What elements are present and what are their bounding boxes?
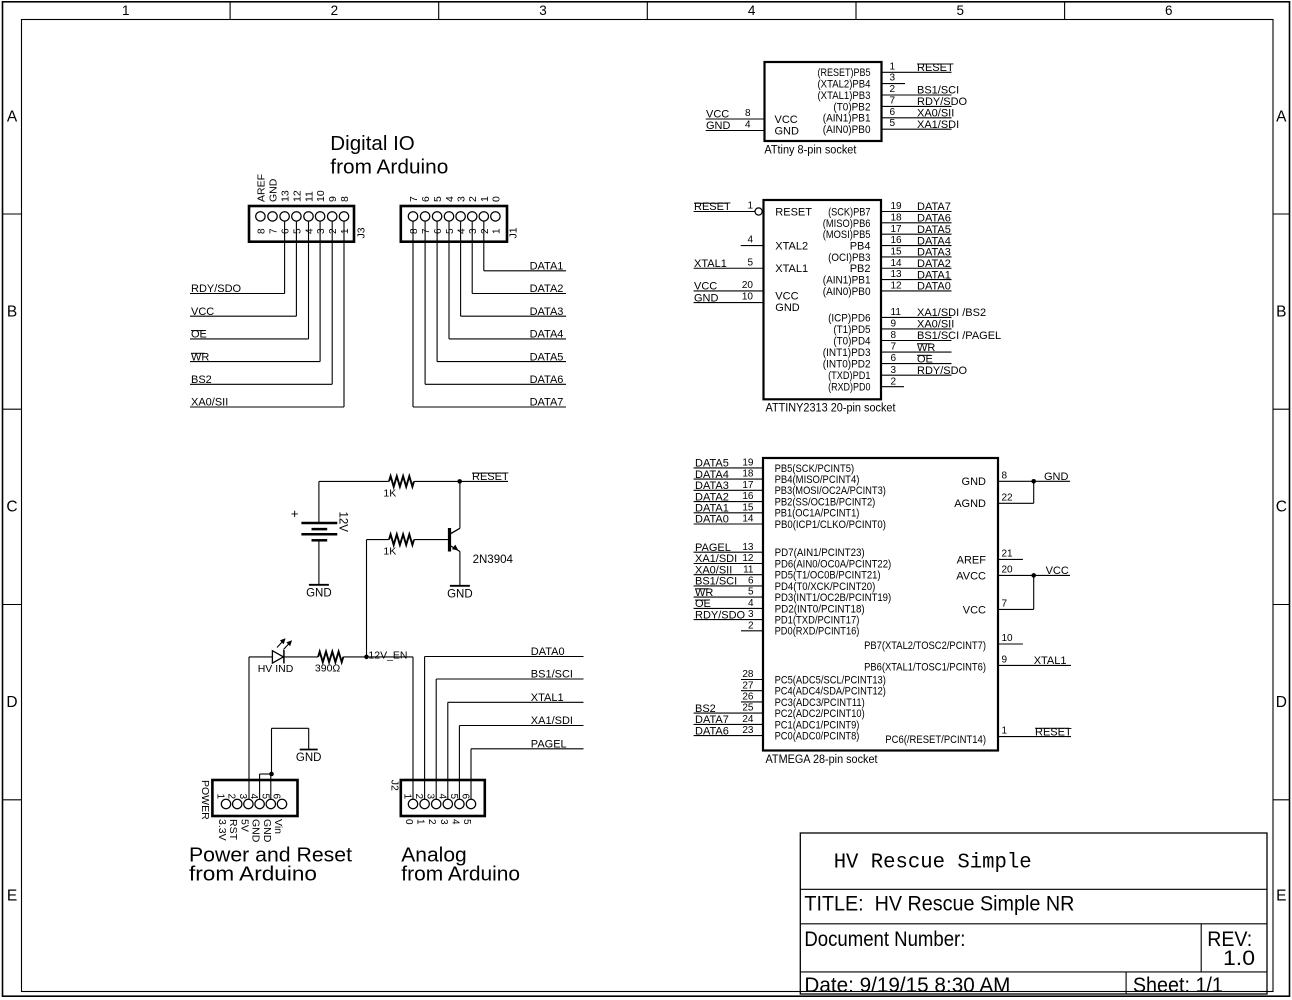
svg-text:VCC: VCC: [775, 290, 798, 302]
svg-text:25: 25: [742, 703, 754, 714]
ATTINY2313 pin 9 wire to XA0/SII net: [881, 328, 952, 330]
svg-text:10: 10: [315, 190, 327, 202]
wire RESET net label stub: [460, 480, 508, 482]
svg-text:11: 11: [891, 307, 902, 318]
svg-text:VCC: VCC: [706, 109, 729, 121]
svg-text:12: 12: [291, 190, 303, 202]
wire J2 to DATA0 net: [424, 657, 426, 800]
svg-text:PD2(INT0/PCINT18): PD2(INT0/PCINT18): [775, 603, 865, 615]
wire AVCC to VCC vertical: [1033, 575, 1035, 609]
transistor Q1 collector: [451, 528, 460, 533]
ATMEGA pin 16 wire to DATA2 net: [694, 501, 763, 503]
svg-text:9: 9: [327, 196, 339, 202]
wire 12V_EN vertical to base resistor: [366, 540, 368, 657]
wire POWER pin 5 GND up: [270, 774, 272, 799]
ATMEGA pin 12 wire to XA1/SDI net: [694, 563, 763, 565]
svg-text:1K: 1K: [383, 488, 396, 500]
svg-text:XA0/SII: XA0/SII: [917, 319, 954, 331]
svg-text:PB6(XTAL1/TOSC1/PCINT6): PB6(XTAL1/TOSC1/PCINT6): [864, 661, 986, 673]
svg-text:PB5(SCK/PCINT5): PB5(SCK/PCINT5): [775, 463, 855, 475]
svg-text:from Arduino: from Arduino: [401, 862, 520, 885]
svg-text:(XTAL1)PB3: (XTAL1)PB3: [818, 90, 871, 102]
svg-text:ATMEGA 28-pin socket: ATMEGA 28-pin socket: [766, 754, 879, 766]
svg-text:20: 20: [742, 280, 754, 291]
ATTINY2313 pin 2 stub wire: [881, 386, 904, 388]
svg-text:DATA3: DATA3: [917, 247, 951, 259]
ATMEGA pin 21 AREF stub wire: [998, 558, 1023, 560]
svg-text:PD4(T0/XCK/PCINT20): PD4(T0/XCK/PCINT20): [775, 581, 876, 593]
svg-text:Document Number:: Document Number:: [804, 928, 965, 951]
ATtiny pin 4 GND wire: [706, 130, 765, 132]
svg-text:5: 5: [259, 794, 270, 800]
svg-text:4: 4: [449, 819, 460, 825]
ATTINY2313 pin 15 wire to DATA3 net: [881, 256, 952, 258]
svg-text:DATA3: DATA3: [530, 306, 564, 318]
svg-text:RST: RST: [227, 819, 239, 841]
svg-text:7: 7: [1002, 598, 1008, 609]
svg-text:PB1(OC1A/PCINT1): PB1(OC1A/PCINT1): [775, 508, 860, 520]
svg-text:7: 7: [421, 228, 432, 234]
svg-text:7: 7: [891, 342, 897, 353]
svg-text:C: C: [6, 499, 17, 516]
wire J1 to DATA6 net: [424, 222, 426, 385]
svg-text:390Ω: 390Ω: [315, 663, 341, 675]
wire J3 to RDY/SDO net: [284, 222, 286, 294]
svg-text:XA1/SDI: XA1/SDI: [917, 119, 959, 131]
svg-text:1: 1: [1002, 726, 1008, 737]
svg-text:XA1/SDI: XA1/SDI: [695, 553, 737, 565]
svg-text:XA1/SDI: XA1/SDI: [531, 715, 573, 727]
svg-text:14: 14: [742, 514, 754, 525]
svg-text:PD6(AIN0/OC0A/PCINT22): PD6(AIN0/OC0A/PCINT22): [775, 558, 892, 570]
wire GND elbow to ground symbol: [272, 727, 309, 729]
svg-text:GND: GND: [296, 752, 322, 764]
svg-text:6: 6: [433, 228, 444, 234]
node GND junction at ATMEGA: [1031, 479, 1036, 484]
svg-text:DATA1: DATA1: [695, 503, 729, 515]
ATtiny pin 3 stub wire: [882, 83, 906, 85]
svg-text:RDY/SDO: RDY/SDO: [695, 609, 746, 621]
svg-text:13: 13: [891, 269, 903, 280]
svg-text:1: 1: [415, 819, 426, 825]
svg-text:18: 18: [891, 212, 903, 223]
svg-text:(INT0)PD2: (INT0)PD2: [823, 359, 871, 371]
svg-text:DATA4: DATA4: [695, 469, 729, 481]
ATTINY2313 pin 5 XTAL1 wire: [694, 267, 764, 269]
svg-text:VCC: VCC: [963, 604, 986, 616]
wire LED cathode to R3: [284, 656, 318, 658]
svg-text:RDY/SDO: RDY/SDO: [917, 96, 968, 108]
svg-text:8: 8: [256, 228, 267, 234]
svg-text:PAGEL: PAGEL: [695, 542, 731, 554]
svg-text:8: 8: [891, 330, 897, 341]
svg-text:DATA4: DATA4: [917, 235, 951, 247]
wire 12V supply top: [319, 480, 389, 482]
svg-text:B: B: [7, 304, 17, 321]
svg-text:XTAL1: XTAL1: [694, 258, 727, 270]
svg-text:AGND: AGND: [954, 498, 986, 510]
svg-text:RDY/SDO: RDY/SDO: [917, 365, 968, 377]
wire J3 to VCC net: [295, 222, 297, 317]
frame row tick marks right: [1273, 213, 1290, 215]
ATMEGA pin 9 wire to XTAL1 net: [998, 664, 1071, 666]
ATMEGA pin 1 wire to RESET net: [998, 736, 1071, 738]
ATTINY2313 pin 16 wire to DATA4 net: [881, 245, 952, 247]
ATMEGA pin 5 wire to WR net: [694, 596, 763, 598]
svg-text:2: 2: [467, 196, 479, 202]
frame row tick marks left: [3, 213, 22, 215]
title block outline: [800, 833, 1267, 994]
svg-text:26: 26: [742, 692, 754, 703]
svg-text:9: 9: [891, 319, 897, 330]
svg-text:PB2: PB2: [850, 263, 871, 275]
svg-text:(T1)PD5: (T1)PD5: [833, 324, 870, 336]
svg-text:TITLE: HV Rescue Simple NR: TITLE: HV Rescue Simple NR: [804, 893, 1074, 916]
svg-text:DATA7: DATA7: [695, 714, 729, 726]
svg-text:GND: GND: [694, 292, 719, 304]
wire J1 to DATA7 net: [412, 222, 414, 407]
svg-text:DATA4: DATA4: [530, 329, 564, 341]
svg-text:DATA0: DATA0: [695, 514, 729, 526]
svg-text:(AIN1)PB1: (AIN1)PB1: [823, 275, 871, 287]
wire J1 to DATA4 net: [448, 222, 450, 339]
ATMEGA pin 18 wire to DATA4 net: [694, 478, 763, 480]
svg-text:BS1/SCI: BS1/SCI: [531, 669, 573, 681]
svg-text:10: 10: [742, 292, 754, 303]
wire LED anode to POWER pin 3: [249, 656, 272, 658]
ATTINY2313 pin 17 wire to DATA5 net: [881, 233, 952, 235]
svg-text:DATA7: DATA7: [530, 397, 564, 409]
svg-text:BS1/SCI: BS1/SCI: [695, 576, 737, 588]
svg-text:1: 1: [215, 794, 226, 800]
svg-text:PD7(AIN1/PCINT23): PD7(AIN1/PCINT23): [775, 547, 865, 559]
resistor R1 1K: [389, 476, 414, 487]
svg-text:PB2(SS/OC1B/PCINT2): PB2(SS/OC1B/PCINT2): [775, 497, 876, 509]
svg-text:DATA2: DATA2: [917, 258, 951, 270]
svg-text:4: 4: [748, 3, 756, 18]
svg-text:18: 18: [742, 469, 754, 480]
svg-text:6: 6: [1165, 3, 1173, 18]
ATtiny pin 6 wire to XA0/SII net: [882, 117, 952, 119]
ATTINY2313 pin 18 wire to DATA6 net: [881, 222, 952, 224]
svg-text:1: 1: [122, 3, 130, 18]
svg-text:(RESET)PB5: (RESET)PB5: [818, 67, 871, 79]
svg-text:J1: J1: [508, 227, 520, 238]
wire R3 to 12V_EN node: [343, 656, 366, 658]
svg-text:E: E: [1276, 888, 1286, 905]
ATMEGA pin 4 wire to OE net: [694, 607, 763, 609]
svg-text:3: 3: [891, 365, 897, 376]
svg-text:XA0/SII: XA0/SII: [917, 108, 954, 120]
ATMEGA pin 17 wire to DATA3 net: [694, 489, 763, 491]
wire R2 to Q1 base: [414, 539, 448, 541]
svg-text:6: 6: [271, 794, 282, 800]
svg-text:15: 15: [891, 247, 903, 258]
svg-text:3: 3: [425, 794, 436, 800]
svg-text:(MISO)PB6: (MISO)PB6: [823, 218, 871, 230]
ATtiny pin 8 VCC wire: [706, 118, 765, 120]
svg-text:J3: J3: [356, 227, 368, 238]
svg-text:J2: J2: [389, 780, 401, 791]
svg-text:XA1/SDI /BS2: XA1/SDI /BS2: [917, 307, 986, 319]
svg-text:RDY/SDO: RDY/SDO: [191, 283, 242, 295]
svg-text:8: 8: [339, 196, 351, 202]
svg-text:Vin: Vin: [272, 819, 284, 834]
svg-text:4: 4: [436, 794, 447, 800]
svg-text:2: 2: [891, 376, 897, 387]
svg-text:5: 5: [461, 819, 472, 825]
wire J1 to DATA3 net: [460, 222, 462, 317]
svg-text:6: 6: [281, 228, 292, 234]
svg-text:DATA6: DATA6: [917, 213, 951, 225]
connector J1 pin circles: [408, 212, 417, 221]
svg-text:16: 16: [891, 235, 903, 246]
svg-text:DATA6: DATA6: [530, 374, 564, 386]
IC ATtiny 8-pin socket body: [765, 62, 882, 141]
svg-text:1: 1: [747, 201, 753, 212]
ATtiny pin 5 wire to XA1/SDI net: [882, 128, 952, 130]
connector J2 pin circles: [408, 799, 417, 808]
svg-text:4: 4: [248, 794, 259, 800]
ATTINY2313 pin 6 wire to OE net: [881, 363, 952, 365]
svg-text:2: 2: [413, 794, 424, 800]
svg-text:6: 6: [420, 196, 432, 202]
svg-text:from Arduino: from Arduino: [330, 156, 448, 179]
svg-text:D: D: [6, 694, 17, 711]
svg-text:2: 2: [328, 228, 339, 234]
svg-text:PB7(XTAL2/TOSC2/PCINT7): PB7(XTAL2/TOSC2/PCINT7): [864, 640, 986, 652]
svg-text:BS1/SCI: BS1/SCI: [917, 85, 959, 97]
svg-text:1K: 1K: [383, 546, 396, 558]
ATMEGA pin 15 wire to DATA1 net: [694, 512, 763, 514]
resistor R2 1K: [389, 534, 414, 545]
ATMEGA pin 7 VCC wire: [998, 608, 1034, 610]
battery B1 plates: [301, 522, 337, 525]
svg-text:GND: GND: [962, 476, 987, 488]
svg-text:PC1(ADC1/PCINT9): PC1(ADC1/PCINT9): [775, 719, 860, 731]
svg-text:22: 22: [1002, 492, 1014, 503]
svg-text:3: 3: [438, 819, 449, 825]
svg-text:(SCK)PB7: (SCK)PB7: [828, 206, 870, 218]
svg-text:10: 10: [1002, 633, 1014, 644]
svg-text:3: 3: [316, 228, 327, 234]
svg-text:(AIN0)PB0: (AIN0)PB0: [823, 124, 871, 136]
svg-text:Digital IO: Digital IO: [330, 132, 415, 155]
svg-text:Date: 9/19/15 8:30 AM: Date: 9/19/15 8:30 AM: [804, 974, 1010, 997]
svg-text:24: 24: [742, 714, 754, 725]
svg-text:(RXD)PD0: (RXD)PD0: [828, 382, 870, 394]
svg-text:DATA5: DATA5: [917, 224, 951, 236]
ATMEGA pin 20 AVCC wire: [998, 574, 1034, 576]
svg-text:AREF: AREF: [957, 554, 987, 566]
svg-text:13: 13: [280, 190, 292, 202]
svg-text:2: 2: [426, 819, 437, 825]
svg-text:PC3(ADC3/PCINT11): PC3(ADC3/PCINT11): [775, 697, 865, 709]
svg-text:5: 5: [448, 794, 459, 800]
wire J3 to WR net: [319, 222, 321, 362]
svg-text:3.3V: 3.3V: [216, 819, 228, 841]
ATTINY2313 pin 20 VCC wire: [694, 290, 764, 292]
battery B1 positive wire: [318, 481, 320, 523]
svg-text:GND: GND: [268, 178, 280, 202]
svg-text:28: 28: [742, 669, 754, 680]
svg-text:3: 3: [748, 609, 754, 620]
svg-text:DATA1: DATA1: [917, 269, 951, 281]
svg-text:(AIN1)PB1: (AIN1)PB1: [823, 113, 871, 125]
ATtiny pin 1 wire to RESET net: [882, 71, 952, 73]
svg-text:DATA3: DATA3: [695, 480, 729, 492]
svg-text:GND: GND: [306, 587, 332, 599]
svg-text:XTAL1: XTAL1: [531, 692, 564, 704]
svg-text:XA0/SII: XA0/SII: [695, 564, 732, 576]
svg-text:5: 5: [747, 257, 753, 268]
svg-text:DATA7: DATA7: [917, 201, 951, 213]
wire 12V_EN to J2 pin 1: [367, 656, 414, 658]
svg-text:2N3904: 2N3904: [473, 554, 514, 566]
svg-text:DATA2: DATA2: [530, 283, 564, 295]
ground at POWER connector: [300, 749, 318, 751]
svg-text:17: 17: [742, 480, 754, 491]
svg-text:2: 2: [890, 84, 896, 95]
svg-text:15: 15: [742, 502, 754, 513]
svg-text:PC4(ADC4/SDA/PCINT12): PC4(ADC4/SDA/PCINT12): [775, 686, 886, 698]
wire J2 to BS1/SCI net: [435, 679, 437, 799]
ATMEGA pin 24 wire to DATA7 net: [694, 723, 763, 725]
svg-text:2: 2: [480, 228, 491, 234]
svg-text:3: 3: [237, 794, 248, 800]
svg-text:(INT1)PD3: (INT1)PD3: [823, 347, 871, 359]
LED D1 HV IND symbol: [272, 651, 283, 663]
svg-text:VCC: VCC: [1046, 565, 1069, 577]
svg-text:11: 11: [304, 191, 316, 202]
svg-text:RESET: RESET: [775, 206, 812, 218]
svg-text:AREF: AREF: [255, 174, 267, 202]
svg-text:GND: GND: [775, 302, 800, 314]
ATMEGA pin 2 stub wire: [741, 630, 763, 632]
wire R1 to RESET node: [414, 480, 460, 482]
svg-text:PB4(MISO/PCINT4): PB4(MISO/PCINT4): [775, 474, 860, 486]
svg-text:5: 5: [445, 228, 456, 234]
svg-text:12: 12: [742, 553, 754, 564]
svg-text:8: 8: [745, 108, 751, 119]
connector POWER body: [212, 780, 297, 816]
svg-text:11: 11: [743, 564, 754, 575]
svg-text:5V: 5V: [238, 819, 250, 832]
svg-text:7: 7: [269, 228, 280, 234]
svg-text:5: 5: [432, 196, 444, 202]
wire base resistor feed: [367, 539, 389, 541]
wire J3 to BS2 net: [331, 222, 333, 385]
wire J3 to OE net: [308, 222, 310, 339]
svg-text:13: 13: [742, 542, 754, 553]
svg-text:GND: GND: [775, 125, 800, 137]
svg-text:PD0(RXD/PCINT16): PD0(RXD/PCINT16): [775, 626, 860, 638]
svg-text:C: C: [1276, 499, 1287, 516]
svg-text:DATA2: DATA2: [695, 491, 729, 503]
ATMEGA pin 6 wire to BS1/SCI net: [694, 585, 763, 587]
svg-text:(OCI)PB3: (OCI)PB3: [828, 252, 870, 264]
LED D1 emission arrows: [277, 639, 291, 649]
IC ATMEGA 28-pin socket body: [763, 458, 998, 751]
svg-text:POWER: POWER: [199, 780, 211, 820]
svg-text:6: 6: [748, 576, 754, 587]
svg-text:4: 4: [457, 228, 468, 234]
svg-text:14: 14: [891, 258, 903, 269]
transistor Q1 2N3904 base bar: [448, 528, 451, 552]
svg-text:5: 5: [748, 587, 754, 598]
ATTINY2313 pin 4 stub wire: [741, 245, 764, 247]
svg-text:A: A: [7, 109, 18, 126]
svg-text:Sheet: 1/1: Sheet: 1/1: [1133, 974, 1223, 997]
wire POWER pin 4 GND jog: [259, 774, 261, 799]
ATMEGA pin 28 stub wire: [741, 679, 763, 681]
svg-text:2: 2: [748, 620, 754, 631]
svg-text:VCC: VCC: [694, 281, 717, 293]
svg-text:PD1(TXD/PCINT17): PD1(TXD/PCINT17): [775, 615, 860, 627]
svg-text:XTAL2: XTAL2: [775, 240, 808, 252]
connector J3 pin circles: [256, 212, 265, 221]
ATMEGA pin 27 stub wire: [741, 690, 763, 692]
svg-text:6: 6: [891, 353, 897, 364]
svg-text:4: 4: [748, 598, 754, 609]
svg-text:GND: GND: [250, 819, 262, 843]
svg-text:27: 27: [742, 680, 754, 691]
svg-text:DATA0: DATA0: [531, 646, 565, 658]
svg-text:DATA5: DATA5: [695, 458, 729, 470]
svg-text:PD5(T1/OC0B/PCINT21): PD5(T1/OC0B/PCINT21): [775, 570, 881, 582]
svg-text:DATA6: DATA6: [695, 725, 729, 737]
svg-text:8: 8: [409, 228, 420, 234]
ATTINY2313 pin 10 GND wire: [694, 302, 764, 304]
node 12V_EN junction: [364, 655, 369, 660]
svg-text:(T0)PB2: (T0)PB2: [833, 101, 870, 113]
resistor R3 390 ohm: [318, 652, 343, 663]
svg-text:5: 5: [292, 228, 303, 234]
svg-text:1: 1: [402, 794, 413, 800]
svg-text:PC0(ADC0/PCINT8): PC0(ADC0/PCINT8): [775, 731, 860, 743]
svg-text:5: 5: [890, 118, 896, 129]
svg-text:ATTINY2313 20-pin socket: ATTINY2313 20-pin socket: [766, 403, 897, 415]
wire J2 to XTAL1 net: [447, 702, 449, 799]
svg-text:BS2: BS2: [695, 703, 716, 715]
ATTINY2313 pin 14 wire to DATA2 net: [881, 267, 952, 269]
svg-text:from Arduino: from Arduino: [189, 862, 317, 885]
svg-text:12V: 12V: [337, 512, 349, 533]
svg-text:1: 1: [340, 228, 351, 234]
title block divider lines: [800, 888, 1267, 890]
wire GND net label stub: [1034, 480, 1070, 482]
svg-text:(MOSI)PB5: (MOSI)PB5: [823, 229, 871, 241]
svg-text:BS1/SCI /PAGEL: BS1/SCI /PAGEL: [917, 330, 1001, 342]
ATTINY2313 pin 12 wire to DATA0 net: [881, 290, 952, 292]
ATMEGA pin 26 stub wire: [741, 701, 763, 703]
svg-text:12: 12: [891, 281, 903, 292]
svg-text:(T0)PD4: (T0)PD4: [833, 335, 870, 347]
svg-text:PB4: PB4: [850, 240, 871, 252]
svg-text:VCC: VCC: [775, 114, 798, 126]
svg-text:4: 4: [747, 235, 753, 246]
ATMEGA pin 11 wire to XA0/SII net: [694, 574, 763, 576]
svg-text:9: 9: [1002, 654, 1008, 665]
svg-text:PB0(ICP1/CLKO/PCINT0): PB0(ICP1/CLKO/PCINT0): [775, 519, 886, 531]
svg-text:1: 1: [479, 196, 491, 202]
svg-text:16: 16: [742, 491, 754, 502]
svg-text:GND: GND: [447, 588, 473, 600]
wire J1 to DATA5 net: [436, 222, 438, 362]
node VCC junction at ATMEGA: [1031, 573, 1036, 578]
svg-text:3: 3: [890, 73, 896, 84]
svg-text:5: 5: [956, 3, 964, 18]
